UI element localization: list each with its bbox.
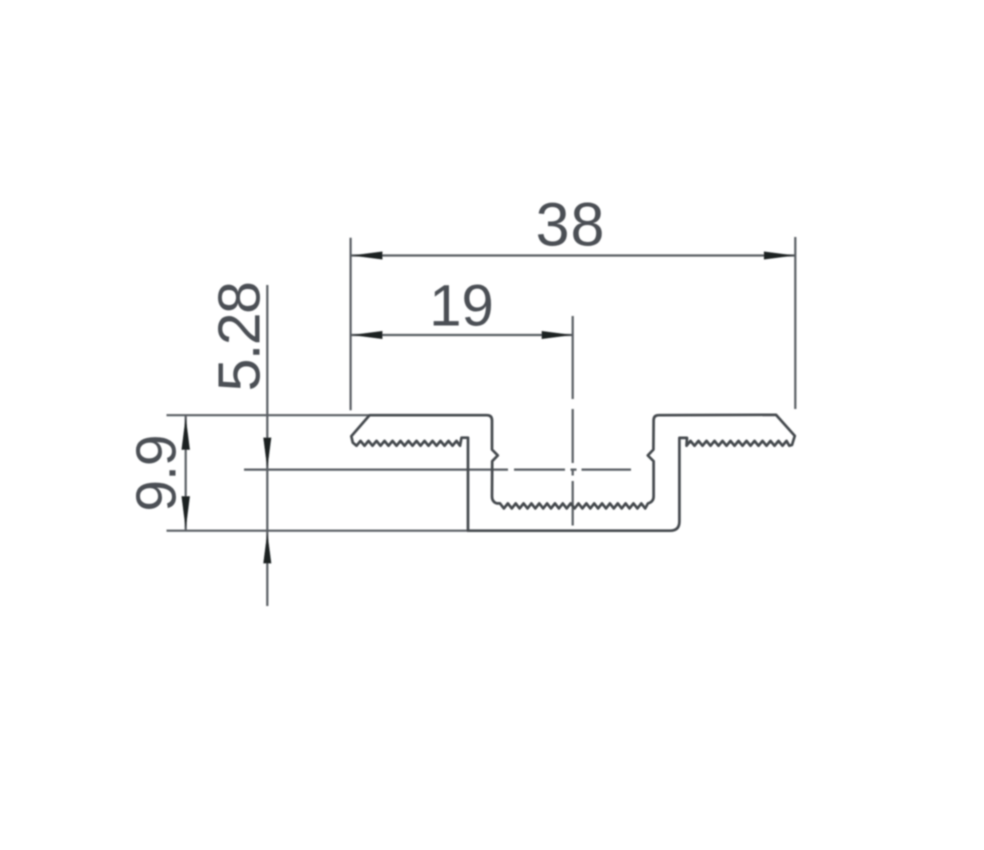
dim 19 arrow left [351,331,382,339]
dim 9.9 arrow bottom (points down) [182,496,190,529]
svg-text:19: 19 [429,274,494,339]
svg-text:38: 38 [536,191,606,259]
dim 9.9 dimension line [185,415,187,531]
dim 38 extension line left [350,238,352,410]
dim 5.28 arrow lower (points up) [263,532,271,563]
svg-text:9.9: 9.9 [125,435,189,511]
dim 38 extension line right [794,237,796,409]
dim 5.28 dimension line [266,285,268,606]
dim 19 arrow right [542,331,573,339]
dim 38 arrow right [764,252,795,260]
dim 9.9 arrow top (points up) [182,417,190,450]
dim 38 dimension line [351,254,795,256]
dim 9.9 extension line top [167,414,369,416]
vertical centerline (dash-dot) [572,316,574,526]
dim 5.28 arrow upper (points down) [263,438,271,469]
svg-text:5.28: 5.28 [207,283,273,392]
dim 9.9 extension line bottom [167,530,469,532]
dim 38 arrow left [351,252,382,260]
clamp profile outline (serrated Z-section) [351,415,795,531]
horizontal centerline (dash-dot) [244,469,631,471]
dim 19 dimension line [351,334,572,336]
